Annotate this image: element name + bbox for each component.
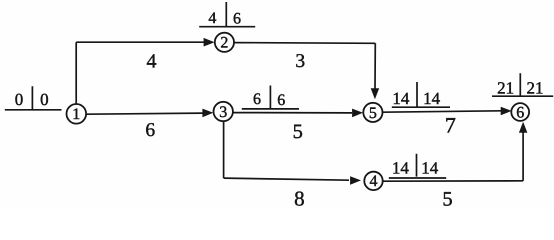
duration 8 on wire 3-4 — [294, 186, 305, 210]
time label 14|14 at node 5 — [392, 82, 450, 108]
arrowhead into node 5 from above — [371, 88, 380, 99]
time label 14|14 at node 4 — [389, 154, 446, 178]
svg-text:3: 3 — [295, 51, 305, 72]
svg-text:2: 2 — [220, 35, 228, 52]
duration 5 on wire 4-6 — [442, 188, 452, 210]
svg-text:1: 1 — [72, 106, 80, 123]
duration 7 on wire 5-6 — [445, 113, 456, 138]
svg-text:6: 6 — [253, 91, 261, 108]
svg-text:4: 4 — [147, 51, 157, 73]
arrowhead into node 2 — [204, 38, 215, 47]
svg-text:0: 0 — [40, 90, 49, 109]
wire 3-5 — [233, 112, 352, 114]
arrowhead into node 6 from below — [519, 122, 528, 133]
svg-text:0: 0 — [15, 90, 24, 109]
duration 4 on wire 1-2 — [147, 51, 157, 73]
wire 4-6 vertical segment — [522, 132, 524, 181]
wire 1-2 vertical segment — [75, 42, 77, 104]
duration 6 on wire 1-3 — [145, 120, 155, 141]
svg-text:8: 8 — [294, 186, 305, 207]
svg-text:3: 3 — [219, 104, 227, 121]
svg-text:14: 14 — [423, 89, 441, 108]
svg-text:14: 14 — [421, 159, 439, 178]
svg-text:7: 7 — [445, 113, 456, 138]
svg-text:6: 6 — [277, 92, 285, 109]
wire 5-6 — [382, 111, 501, 112]
node 5 — [363, 103, 382, 122]
time label 4|6 at node 2 — [199, 2, 255, 28]
duration 5 on wire 3-5 — [293, 121, 303, 143]
svg-text:5: 5 — [442, 188, 452, 207]
arrowhead into node 6 from left — [501, 107, 512, 116]
svg-text:6: 6 — [145, 120, 155, 141]
svg-text:5: 5 — [369, 105, 377, 122]
wire 3-4 vertical segment — [223, 121, 225, 178]
svg-text:6: 6 — [233, 11, 241, 28]
wire 4-6 horizontal segment — [382, 180, 523, 182]
svg-text:4: 4 — [370, 173, 378, 190]
time label 21|21 at node 6 — [492, 73, 553, 97]
svg-text:14: 14 — [392, 159, 410, 178]
svg-text:14: 14 — [392, 89, 410, 108]
node 6 — [511, 103, 529, 121]
duration 3 on wire 2-5 — [295, 51, 305, 72]
svg-text:5: 5 — [293, 121, 303, 143]
arrowhead into node 3 — [202, 109, 213, 118]
wire 1-3 — [86, 113, 203, 114]
node 2 — [215, 33, 234, 52]
svg-text:21: 21 — [527, 79, 544, 98]
wire 1-2 horizontal segment — [76, 41, 204, 43]
node 1 — [67, 104, 87, 124]
svg-text:4: 4 — [208, 10, 216, 27]
time label 6|6 at node 3 — [242, 86, 299, 110]
wire 2-5 horizontal segment — [234, 42, 375, 45]
node 4 — [364, 172, 382, 191]
node 3 — [214, 102, 233, 121]
arrowhead into node 5 from left — [352, 109, 363, 118]
time label 0|0 at node 1 — [5, 86, 62, 110]
wire 3-4 horizontal segment — [224, 178, 349, 180]
arrowhead into node 4 — [350, 176, 361, 185]
svg-text:6: 6 — [516, 104, 524, 121]
wire 2-5 vertical segment — [374, 43, 376, 89]
svg-text:21: 21 — [497, 79, 514, 98]
